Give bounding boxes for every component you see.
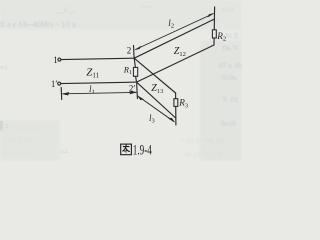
svg-text:ACE 5: ACE 5 xyxy=(224,31,242,40)
terminal 1 xyxy=(58,58,61,61)
node 2' tick (dimension extension below node 2') xyxy=(136,84,139,99)
svg-text:= 01 x - 8E.1Q: = 01 x - 8E.1Q xyxy=(180,136,225,145)
wire: Z13 branch top conductor (node 2 to R3 top) xyxy=(134,58,175,93)
svg-text:1: 1 xyxy=(53,55,58,65)
svg-text:UL - MUER T Z: UL - MUER T Z xyxy=(2,123,53,132)
dimension l3 line with arrows xyxy=(137,95,175,122)
svg-text:70.0x: 70.0x xyxy=(220,73,237,82)
wire: Z12 branch bottom conductor (node 2' to R2 bottom) xyxy=(137,45,215,82)
svg-text:'8 .01: '8 .01 xyxy=(222,95,239,104)
wire: main line top conductor 1-2 xyxy=(61,58,134,59)
svg-text:40.1E-91.3B: 40.1E-91.3B xyxy=(184,150,222,159)
svg-text:2: 2 xyxy=(127,46,132,56)
svg-text:ITATA M =-: ITATA M =- xyxy=(2,136,40,145)
svg-text:00 04 15 0: 00 04 15 0 xyxy=(2,149,34,158)
resistor R3 xyxy=(174,99,178,107)
svg-text:2′: 2′ xyxy=(129,83,136,93)
dimension l1 line with arrows xyxy=(62,91,138,96)
wire: Z13 branch bottom conductor (node 2' to R3 bottom) xyxy=(137,82,176,118)
resistor R2 xyxy=(212,30,216,38)
schematic strokes xyxy=(58,7,215,125)
tick at terminal 1' for l1 dimension xyxy=(60,88,63,100)
hand-drawn 图 glyph xyxy=(121,144,132,155)
svg-text:≡5: ≡5 xyxy=(0,64,8,72)
svg-text:1.9-4: 1.9-4 xyxy=(133,143,152,159)
svg-text:-04-: -04- xyxy=(58,148,70,156)
node 2 tick (dimension extension above node 2) xyxy=(133,46,136,58)
dimension l2 line with arrows xyxy=(134,13,215,50)
wire: R3 terminating vertical xyxy=(175,93,177,125)
svg-text:0a,'≡: 0a,'≡ xyxy=(223,43,238,52)
svg-text:9x10: 9x10 xyxy=(221,119,236,128)
faint bleed-through text xyxy=(0,0,245,159)
labels xyxy=(51,18,226,125)
svg-text:▌t: ▌t xyxy=(0,120,9,131)
wire: R1 vertical link node2-node2' xyxy=(134,58,135,67)
svg-text:__√__: __√__ xyxy=(55,5,75,14)
paper background xyxy=(0,0,242,161)
svg-text:x10: x10 xyxy=(222,5,234,14)
caption 图 1.9-4 xyxy=(121,143,153,159)
wire: Z12 branch top conductor (node 2 to R2 top) xyxy=(134,19,214,58)
svg-text:Il a e Ab--40M/s ~ 1/l u: Il a e Ab--40M/s ~ 1/l u xyxy=(0,20,76,29)
wire: R2 terminating vertical xyxy=(213,7,216,45)
wire: main line bottom conductor 1'-2' xyxy=(61,82,137,84)
resistor R1 xyxy=(133,67,137,76)
svg-text:07 x 10: 07 x 10 xyxy=(219,61,242,70)
terminal 1' xyxy=(58,82,61,85)
svg-text:___: ___ xyxy=(139,0,152,8)
svg-text:1′: 1′ xyxy=(51,79,58,89)
